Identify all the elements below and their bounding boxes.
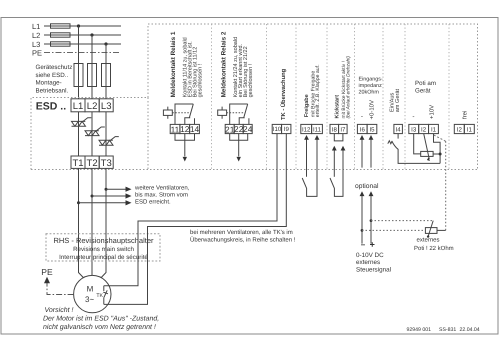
junction L3	[104, 42, 107, 45]
terminal block 21 22 24	[225, 124, 252, 133]
relay K2 contact	[230, 104, 249, 124]
svg-text:ESD erreicht.: ESD erreicht.	[135, 199, 171, 206]
svg-text:Vorsicht !: Vorsicht !	[45, 306, 74, 314]
svg-text:3~: 3~	[85, 295, 94, 304]
svg-text:bis max. Strom vom: bis max. Strom vom	[135, 192, 188, 199]
triac V2	[85, 127, 105, 136]
svg-text:impedanz: impedanz	[359, 83, 383, 89]
branch arrow 3	[79, 202, 128, 204]
svg-text:externes: externes	[417, 237, 440, 243]
wire T2 to motor	[91, 168, 93, 275]
terminal block I6 I5	[357, 124, 376, 133]
svg-text:externes: externes	[356, 259, 380, 266]
wire L3 to triac	[105, 112, 107, 156]
svg-text:I2: I2	[457, 126, 463, 133]
svg-text:+0-10V: +0-10V	[369, 100, 376, 120]
wire T1 to motor	[79, 168, 84, 278]
svg-text:nicht galvanisch vom Netz getr: nicht galvanisch vom Netz getrennt !	[43, 323, 156, 331]
svg-text:M: M	[87, 284, 94, 293]
wire drop L2	[91, 35, 93, 99]
potentiometer R1 wiper from I2	[424, 134, 430, 160]
svg-text:Gerät: Gerät	[415, 88, 431, 95]
wire to terminal I12 with arrow	[306, 139, 308, 177]
ground PE arrow	[44, 277, 50, 283]
triac V3	[99, 137, 119, 146]
svg-text:Meldekontakt Relais 1: Meldekontakt Relais 1	[170, 31, 177, 97]
svg-text:Revisions main switch: Revisions main switch	[73, 246, 134, 253]
relay K2 output arrow	[230, 134, 248, 157]
ext pot wiper	[428, 221, 433, 237]
column separator 1	[147, 98, 149, 170]
ESD enclosure bottom dash-dot	[31, 169, 478, 171]
svg-text:geschlossen !: geschlossen !	[197, 63, 203, 97]
svg-text:L2: L2	[32, 31, 40, 40]
Kickstart bridge	[334, 134, 343, 141]
wire L1	[44, 25, 121, 27]
svg-text:Der Motor ist im ESD "Aus" -Zu: Der Motor ist im ESD "Aus" -Zustand,	[43, 315, 159, 323]
switch S2 Kickstart contact and wire to I7	[330, 150, 343, 197]
svg-text:I5: I5	[369, 126, 375, 133]
terminal block frei I2 I1	[454, 124, 474, 133]
svg-text:ESD ..: ESD ..	[36, 100, 66, 112]
svg-text:L2: L2	[87, 101, 98, 112]
svg-text:20kOhm: 20kOhm	[359, 90, 380, 96]
fuse F3 on L3	[51, 42, 71, 46]
relay K1 labels	[170, 31, 177, 97]
relay K2 coil	[218, 110, 227, 115]
wire T3 to motor	[101, 168, 106, 278]
svg-text:L1: L1	[32, 22, 40, 31]
svg-text:-: -	[412, 114, 414, 121]
relay K1 contact	[175, 104, 195, 124]
wire L2 to triac	[91, 112, 93, 156]
svg-text:Freigabe: Freigabe	[304, 94, 310, 117]
svg-text:92949 001: 92949 001	[407, 327, 432, 333]
svg-text:PE: PE	[32, 49, 42, 58]
terminal block I10 I9	[272, 124, 291, 133]
svg-text:geschlossen !: geschlossen !	[248, 63, 254, 97]
svg-text:14: 14	[190, 124, 200, 134]
fuse F2 on L2	[51, 33, 71, 37]
fuse Geraeteschutz 2	[88, 64, 97, 87]
wire drop L3	[105, 44, 107, 99]
junction T2 branch	[91, 195, 94, 198]
svg-text:TK - Überwachung: TK - Überwachung	[280, 68, 287, 120]
fuse Geraeteschutz 3	[102, 64, 111, 87]
Freigabe labels	[304, 94, 310, 117]
terminal block T1 T2 T3	[71, 156, 113, 168]
svg-text:Montage-: Montage-	[36, 80, 62, 87]
svg-text:am Gerät: am Gerät	[395, 89, 401, 113]
svg-text:Poti ! 22 kOhm: Poti ! 22 kOhm	[414, 245, 454, 252]
svg-text:12: 12	[180, 124, 190, 134]
wire L3	[44, 43, 121, 45]
junction pot right	[439, 153, 442, 156]
svg-text:Steuersignal: Steuersignal	[356, 266, 391, 273]
switch S1 Freigabe contact and wire to I11	[302, 139, 317, 196]
svg-text:+: +	[370, 240, 375, 250]
wire to terminal I8 with arrow	[333, 150, 335, 177]
dashed link I1 to ext pot	[434, 135, 446, 141]
junction L1	[77, 24, 80, 27]
wire L2	[44, 34, 121, 36]
svg-text:Meldekontakt Relais 2: Meldekontakt Relais 2	[220, 31, 227, 97]
wire TK upper	[104, 134, 277, 286]
wire PE dash-dot	[44, 52, 121, 54]
junction T1 branch	[77, 201, 80, 204]
frei label	[462, 111, 469, 119]
svg-text:SS-831: SS-831	[439, 327, 456, 333]
terminal block I3 I2 I1	[409, 124, 439, 133]
wire I1 to pot right	[433, 134, 440, 164]
svg-text:T3: T3	[101, 158, 112, 169]
svg-text:Poti am: Poti am	[415, 80, 436, 87]
relay K1 output arrow	[175, 134, 195, 157]
svg-text:0-10V DC: 0-10V DC	[356, 252, 384, 259]
svg-text:I12: I12	[302, 126, 311, 133]
svg-text:I1: I1	[431, 126, 437, 133]
Kickstart labels	[335, 95, 341, 119]
svg-text:I11: I11	[313, 126, 322, 133]
wire ext pot right terminal	[437, 229, 446, 231]
potentiometer on device	[421, 151, 433, 156]
column separator 4	[295, 24, 297, 170]
fuse F1 on L1	[51, 24, 71, 28]
junction on plus wire	[370, 219, 373, 222]
wire stubs to terminals I6 I5 with arrows	[362, 139, 371, 168]
svg-text:I4: I4	[396, 126, 402, 133]
svg-text:siehe ESD..: siehe ESD..	[36, 72, 69, 79]
svg-text:I10: I10	[273, 126, 282, 133]
ground PE wire dash-dot	[47, 282, 74, 295]
junction L2	[90, 33, 93, 36]
branch arrow 1	[106, 188, 127, 190]
terminal block 11 12 14	[170, 124, 199, 133]
svg-text:frei: frei	[462, 111, 469, 119]
column separator 9	[448, 24, 450, 170]
svg-text:weitere Ventilatoren,: weitere Ventilatoren,	[134, 185, 190, 192]
svg-text:Interrupteur principal de sécu: Interrupteur principal de sécurité	[59, 254, 148, 261]
svg-text:L3: L3	[101, 101, 112, 112]
svg-text:I1: I1	[467, 126, 473, 133]
svg-text:L1: L1	[73, 101, 84, 112]
motor TK contact	[103, 286, 108, 305]
relay K2 link	[227, 112, 245, 114]
svg-text:(bei Anlauf erhöhte Drehzahl): (bei Anlauf erhöhte Drehzahl)	[345, 56, 351, 119]
svg-text:22.04.04: 22.04.04	[460, 327, 480, 333]
ESD enclosure dashed boundary	[31, 24, 478, 170]
svg-text:I6: I6	[360, 126, 366, 133]
Ein/Aus labels	[389, 93, 396, 112]
fuse Geraeteschutz 1	[74, 64, 83, 87]
relay K2 labels	[220, 31, 227, 97]
svg-text:I3: I3	[411, 126, 417, 133]
svg-text:Betriebsanl.: Betriebsanl.	[36, 87, 69, 94]
column separator 5	[326, 24, 328, 170]
switch S3 blade and wire to +10V rail	[392, 141, 440, 163]
svg-text:T1: T1	[72, 158, 83, 169]
svg-text:RHS - Revisionshauptschalter: RHS - Revisionshauptschalter	[53, 236, 154, 245]
column separator 3	[266, 24, 268, 170]
wire L1 to triac	[78, 112, 80, 156]
svg-text:Überwachungskreis, in Reihe sc: Überwachungskreis, in Reihe schalten !	[190, 235, 296, 243]
svg-text:I7: I7	[340, 126, 346, 133]
triac V1	[72, 118, 92, 127]
svg-text:Kickstart: Kickstart	[335, 95, 341, 119]
column separator 6	[354, 24, 356, 170]
svg-text:+10V: +10V	[429, 105, 436, 119]
svg-text:-: -	[361, 113, 363, 120]
terminal block L1 L2 L3	[71, 99, 113, 112]
svg-text:11: 11	[171, 124, 180, 134]
column separator 8	[404, 24, 406, 170]
external potentiometer R2 body	[425, 228, 437, 234]
caution note	[43, 306, 159, 331]
wire stub below I4	[397, 134, 399, 139]
wires for external 0-10V signal with arrows	[362, 196, 371, 244]
relay K1 coil	[163, 110, 172, 115]
svg-text:T2: T2	[87, 158, 98, 169]
svg-text:PE: PE	[41, 267, 53, 277]
TK column label	[280, 68, 287, 120]
svg-text:erteilt. Z.B. Klappe auf.: erteilt. Z.B. Klappe auf.	[315, 64, 321, 117]
wire I3 to pot	[414, 134, 421, 154]
RHS revision main switch box	[46, 234, 160, 261]
column separator 7	[382, 24, 384, 170]
svg-text:24: 24	[243, 124, 253, 134]
svg-text:TK: TK	[96, 293, 103, 299]
terminal I4	[394, 124, 403, 133]
wire TK lower	[104, 134, 286, 305]
input range label	[369, 100, 376, 120]
dotted wire to ext pot left	[362, 229, 425, 231]
dotted wire to ext pot wiper	[371, 220, 433, 222]
svg-text:optional: optional	[355, 183, 379, 190]
svg-text:bei mehreren Ventilatoren, all: bei mehreren Ventilatoren, alle TK's im	[190, 229, 293, 236]
svg-text:Geräteschutz: Geräteschutz	[36, 64, 73, 71]
relay K1 link	[172, 112, 190, 114]
svg-text:Eingangs-: Eingangs-	[359, 77, 383, 83]
branch arrow 2	[92, 195, 127, 197]
terminal block I8 I7	[330, 124, 347, 133]
svg-text:I9: I9	[284, 126, 290, 133]
motor M1	[74, 275, 111, 312]
wire drop L1	[78, 26, 80, 99]
junction T3 branch	[105, 188, 108, 191]
junction on minus wire	[361, 229, 364, 232]
svg-text:–: –	[361, 240, 366, 249]
terminal block I12 I11	[301, 124, 323, 133]
svg-text:I8: I8	[332, 126, 338, 133]
column separator 2	[211, 24, 213, 170]
svg-text:I2: I2	[421, 126, 427, 133]
switch S3 Ein/Aus manual actuator	[388, 141, 392, 144]
